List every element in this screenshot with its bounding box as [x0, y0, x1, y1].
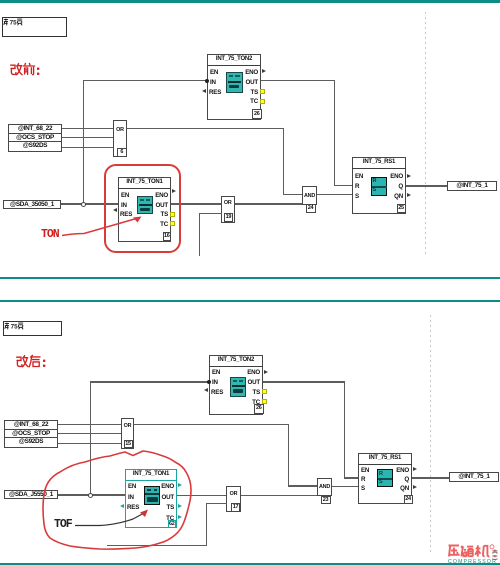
page label box (section 2) [3, 321, 62, 336]
AND gate 24 [302, 186, 317, 205]
separator teal line 2 [0, 300, 500, 302]
wire OR15 output to ANDb in1 [288, 485, 317, 486]
wire into RSb R pin [344, 477, 359, 478]
ENO teal arrow TON1b [178, 483, 182, 487]
function block U-TON1 INT_75_TON1 [118, 177, 171, 242]
RS1 exec number 25 [397, 204, 406, 213]
OR15 exec number 15 [124, 440, 133, 449]
OR gate 19 [221, 196, 235, 223]
svg-text:COMPRESSOR: COMPRESSOR [448, 559, 497, 565]
yellow pin marker TC (TON1) [170, 221, 175, 226]
output variable box @INT_75_1 [447, 181, 497, 191]
red label 改后: (drawn strokes) [16, 355, 46, 369]
OR17 exec number 17 [231, 503, 240, 512]
variable box @INT_68_22 (b) [4, 420, 58, 430]
wire TON1 OUT to OR19 [171, 203, 221, 204]
TON icon of TON2b [230, 377, 246, 397]
QN arrow RS1b [413, 485, 417, 489]
wire OR6 output right [127, 128, 283, 129]
wire AND output to RS S [317, 194, 352, 195]
AND gate 23 [317, 478, 332, 497]
magazine logo 压缩机 (drawn strokes) + COMPRESSOR [447, 543, 500, 564]
output variable box @INT_75_1 (b) [449, 472, 499, 482]
TC teal arrow TON1b [178, 515, 182, 519]
page label text 第75页 (drawn strokes) [3, 18, 28, 26]
RS icon [371, 177, 388, 196]
wire RS Q to output box [406, 185, 447, 186]
RSb icon [377, 469, 393, 487]
red label 改前: (drawn strokes) [10, 63, 40, 77]
wire into RS R pin [334, 185, 353, 186]
wire OR17 output to ANDb in2 [241, 495, 317, 496]
wire @OCS_STOP to OR15 [58, 433, 121, 434]
wire OR15 output down [288, 424, 289, 486]
function block U-TON1b INT_75_TON1 (selected, teal) [125, 469, 177, 528]
red highlight rounded-rect around TON1 [103, 163, 183, 255]
wire OR19 second input horizontal [199, 213, 222, 214]
wire @INT_68_22 to OR15 [58, 424, 121, 425]
OR gate 17 [226, 486, 241, 512]
RS1b exec number 24 [404, 495, 413, 504]
variable box @SDA_J5550_1 [4, 490, 58, 499]
RES dangling arrow TON1 [113, 208, 117, 212]
function block U-TON2 INT_75_TON2 [207, 54, 261, 120]
TON icon of TON1 [137, 196, 153, 214]
junction dot at TON2 IN pin [205, 79, 209, 83]
wire ANDb output to RSb S [332, 486, 358, 487]
wire @INT_68_22 to OR6 [62, 128, 113, 129]
black TOF label [54, 518, 72, 531]
yellow pin marker TC (TON2) [260, 99, 265, 104]
wire @S92DS to OR6 [62, 147, 113, 148]
wire OR17 second input bottom horizontal (dangling) [107, 545, 207, 546]
OR gate 6 [113, 120, 127, 158]
yellow pin marker TS (TON1) [170, 212, 175, 217]
TON1 exec number 16 [163, 232, 172, 242]
wire RSb Q to output box [412, 477, 449, 478]
wire @S92DS to OR15 [58, 443, 121, 444]
variable box @OCS_STOP (b) [4, 429, 58, 439]
junction open circle on @SDA_J5550_1 wire [88, 493, 93, 498]
top teal bar [0, 0, 500, 3]
function block U-RS1 INT_75_RS1 [352, 157, 406, 214]
variable box @INT_68_22 [8, 124, 62, 134]
variable box @OCS_STOP [8, 133, 62, 143]
wire TON2 OUT right [261, 80, 334, 81]
wire OR17 second input vertical [206, 503, 207, 546]
yellow pin marker TS (TON2b) [262, 389, 267, 394]
TOF icon of TON1b [144, 486, 160, 505]
AND24 exec number 24 [306, 204, 316, 213]
dashed page-boundary line (section 2) [430, 315, 431, 552]
wire TON1b OUT to OR17 [177, 495, 226, 496]
variable box @S92DS [8, 141, 62, 151]
svg-text:75: 75 [11, 323, 18, 330]
yellow pin marker TS (TON2) [260, 89, 265, 94]
RES dangling teal arrow TON1b [120, 504, 124, 508]
ENO arrow TON2 [262, 69, 266, 73]
wire TON2b IN left horizontal [90, 381, 210, 382]
yellow pin marker TC (TON2b) [262, 399, 267, 404]
ENO arrow TON1 [172, 189, 176, 193]
wire OR17 second input horizontal [206, 503, 227, 504]
wire TON2b OUT down to RSb R [344, 381, 345, 478]
page label text 第75页 (drawn strokes) [4, 322, 29, 330]
OR gate 15 [121, 418, 134, 449]
TON2b exec number 26 [254, 404, 264, 414]
variable box @SDA_35050_1 [3, 200, 61, 209]
ENO arrow RS1b [413, 467, 417, 471]
TS teal arrow TON1b [178, 504, 182, 508]
junction dot at TON2b IN pin [207, 380, 211, 384]
variable box @S92DS (b) [4, 437, 58, 447]
wire OR15 output right [134, 424, 289, 425]
RES dangling arrow TON2 [202, 89, 206, 93]
wire OR6 output to AND in1 [283, 194, 303, 195]
ENO arrow RS1 [407, 174, 411, 178]
wire TON2 IN left horizontal [83, 80, 208, 81]
wire vertical from TON2 IN down to @SDA junction [83, 80, 84, 204]
AND23 exec number 23 [321, 496, 331, 505]
ENO arrow TON2b [264, 370, 268, 374]
separator teal line 1 [0, 277, 500, 279]
dashed page-boundary line (section 1) [425, 12, 426, 257]
wire @SDA_J5550_1 to TON1b IN [58, 494, 125, 495]
black arrow TOF -> icon [73, 505, 153, 530]
wire @OCS_STOP to OR6 [62, 137, 113, 138]
QN arrow RS1 [407, 193, 411, 197]
wire OR19 output to AND in2 [235, 203, 303, 204]
wire TON2b OUT right [263, 381, 344, 382]
page label box (section 1) [2, 17, 67, 37]
red TON label [41, 228, 59, 241]
wire OR19 second input vertical (dangling) [199, 213, 200, 256]
TON1b exec number (teal box) [168, 520, 177, 528]
wire TON2 OUT down to RS R [334, 80, 335, 185]
OR6 exec number 6 [117, 148, 127, 157]
RES dangling arrow TON2b [204, 388, 208, 392]
svg-text:75: 75 [9, 19, 16, 26]
function block U-TON2b INT_75_TON2 [209, 355, 263, 415]
junction open circle on @SDA wire [81, 202, 86, 207]
wire vertical from TON2b IN down to @SDA junction [90, 381, 91, 495]
wire @SDA to TON1 IN [61, 203, 118, 204]
OR19 exec number 19 [224, 213, 234, 222]
TON icon of TON2 [226, 72, 243, 93]
red hand-drawn loop around TON1b [40, 448, 195, 553]
red arrow TON -> icon [60, 210, 150, 242]
TON2 exec number 26 [252, 109, 262, 119]
wire OR6 output down [283, 128, 284, 195]
bottom teal bar [0, 563, 500, 565]
function block U-RS1b INT_75_RS1 [358, 453, 412, 504]
